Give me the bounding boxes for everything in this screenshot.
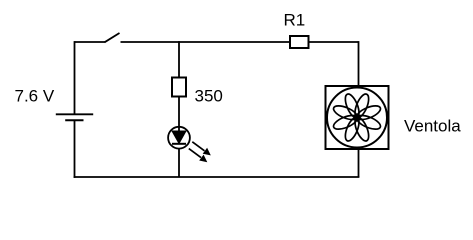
wire middle branch lower (LED to bottom wire)	[178, 148, 180, 177]
wire bottom horizontal	[74, 176, 360, 178]
svg-text:7.6 V: 7.6 V	[15, 87, 55, 106]
LED D1 emission arrow 1	[192, 142, 211, 156]
wire top-right horizontal	[309, 41, 359, 43]
LED D1 emission arrow 2	[189, 149, 208, 163]
wire top middle (switch to R1)	[121, 41, 291, 43]
svg-text:Ventola: Ventola	[404, 117, 461, 136]
battery B1 long plate	[56, 113, 93, 115]
wire middle branch upper (junction to resistor)	[178, 41, 180, 77]
wire left vertical (battery to bottom)	[74, 120, 76, 178]
switch S1 blade	[105, 33, 120, 42]
fan M1 circle	[327, 88, 387, 148]
wire middle branch (resistor to LED)	[178, 97, 180, 132]
LED D1 circle	[168, 127, 190, 149]
LED D1 cathode bar	[172, 143, 186, 145]
wire left vertical (top corner to battery)	[74, 41, 76, 114]
wire right vertical to fan	[358, 41, 360, 86]
LED D1 triangle	[172, 131, 186, 144]
fan M1 square frame	[326, 86, 389, 149]
resistor R1	[290, 36, 309, 48]
fan M1 blades (8-petal rosette)	[332, 92, 383, 143]
svg-text:R1: R1	[284, 11, 306, 30]
wire fan bottom vertical	[358, 149, 360, 177]
resistor 350	[172, 78, 186, 97]
wire top-left horizontal	[75, 41, 106, 43]
battery B1 short plate	[65, 119, 83, 121]
svg-text:350: 350	[195, 87, 223, 106]
